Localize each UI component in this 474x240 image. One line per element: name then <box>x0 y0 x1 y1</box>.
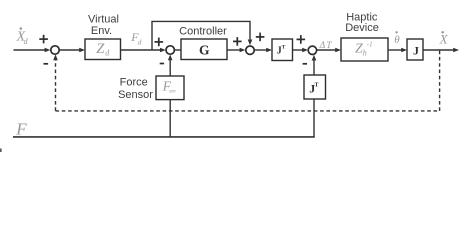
wire S3 to JT1 block <box>255 48 272 53</box>
svg-text:h: h <box>363 49 367 58</box>
wire S1 to Zd block <box>60 48 85 53</box>
svg-text:T: T <box>326 41 332 51</box>
corner artifact mark bottom-left <box>0 149 2 153</box>
plus sign at S4 <box>297 35 306 44</box>
plus sign left at S3 <box>233 37 242 46</box>
wire dashed velocity feedback right segment <box>439 51 441 111</box>
wire Fsen vertical into S2 <box>168 54 173 76</box>
wire S4 to Zh block, labelled dT <box>317 48 341 53</box>
node Fd label <box>130 30 141 46</box>
block Fsen (force sensor) <box>156 76 184 100</box>
plus sign at S1 <box>39 35 48 44</box>
wire dashed velocity feedback bottom segment <box>56 110 440 112</box>
minus sign at S1 <box>44 63 49 65</box>
summing junction S4 <box>308 46 316 54</box>
plus sign top at S3 <box>256 33 265 42</box>
svg-text:Force: Force <box>120 77 148 89</box>
wire dashed velocity feedback left segment into S1 <box>53 54 58 111</box>
label Haptic Device <box>345 11 379 34</box>
wire force line F <box>13 136 315 138</box>
block Zd (virtual environment impedance) <box>85 39 121 60</box>
wire input to summing junction S1 <box>14 48 51 53</box>
svg-text:F: F <box>15 120 27 139</box>
svg-text:Z: Z <box>355 42 363 57</box>
label Virtual Env. <box>88 13 119 37</box>
svg-text:Sensor: Sensor <box>118 89 153 101</box>
svg-text:T: T <box>315 82 319 88</box>
svg-text:d: d <box>138 37 142 46</box>
wire feedforward branch over controller to S3 <box>152 21 252 50</box>
wire JT2 down to force line <box>313 99 315 137</box>
svg-text:θ: θ <box>394 34 400 46</box>
block JT2 (Jacobian transpose, force path) <box>304 75 326 99</box>
block Zh inverse (haptic device impedance) <box>341 38 388 61</box>
svg-text:Δ: Δ <box>319 41 326 51</box>
label Force Sensor <box>118 77 153 101</box>
svg-text:-1: -1 <box>367 40 373 48</box>
node theta-dot label <box>394 31 400 46</box>
summing junction S3 <box>246 46 254 54</box>
svg-text:J: J <box>413 43 419 57</box>
wire JT2 vertical into S4 <box>312 55 317 75</box>
block JT1 (Jacobian transpose) <box>272 39 293 61</box>
summing junction S2 <box>166 46 174 54</box>
node dT label <box>319 41 333 51</box>
svg-text:T: T <box>282 44 286 50</box>
minus sign at S2 <box>160 63 164 65</box>
wire J to output, labelled X-dot <box>423 48 459 53</box>
node Xd input label <box>16 27 29 46</box>
svg-text:Virtual: Virtual <box>88 13 119 25</box>
svg-text:Controller: Controller <box>179 26 227 38</box>
minus sign at S4 <box>303 63 307 65</box>
plus sign at S2 <box>155 38 164 47</box>
wire Zd to summing junction S2, with branch node <box>121 48 166 53</box>
svg-text:sen: sen <box>169 89 176 94</box>
summing junction S1 <box>51 46 59 54</box>
svg-text:Env.: Env. <box>91 25 112 37</box>
node X-dot output label <box>439 31 449 46</box>
block G (controller) <box>181 39 227 60</box>
svg-text:X: X <box>439 31 449 46</box>
svg-text:G: G <box>199 42 210 57</box>
wire G to summing junction S3 <box>227 48 245 53</box>
wire Zh to J block, labelled theta-dot <box>388 48 407 53</box>
svg-text:Z: Z <box>96 41 105 57</box>
wire Fsen down to force line <box>169 100 171 138</box>
wire S2 to G block <box>175 49 181 51</box>
block J (Jacobian) <box>407 39 423 60</box>
wire JT1 to summing junction S4 <box>293 48 309 53</box>
svg-text:Device: Device <box>345 22 379 34</box>
